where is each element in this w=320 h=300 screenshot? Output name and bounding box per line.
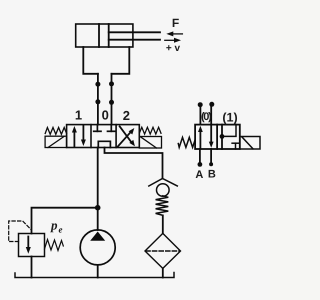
node dot top B	[209, 102, 214, 107]
valve V1 position 1 down arrow	[81, 126, 86, 147]
svg-text:): )	[208, 111, 212, 123]
node dot A1	[95, 82, 100, 87]
force arrow F (left)	[166, 31, 182, 36]
node dot B2	[109, 100, 114, 105]
junction dot P branch	[95, 205, 101, 211]
valve V2 top stub B	[210, 106, 212, 125]
valve V2 solenoid	[240, 137, 260, 150]
valve V1 left solenoid	[45, 136, 67, 147]
svg-text:1: 1	[75, 107, 82, 122]
piston rod	[109, 32, 160, 39]
valve V1 right spring	[139, 127, 161, 134]
node dot bottom A	[198, 162, 203, 167]
node dot B1	[109, 81, 114, 86]
velocity arrow +v (right)	[165, 38, 181, 43]
svg-text:A: A	[195, 169, 203, 181]
pump P1	[80, 230, 115, 265]
wire relief valve to tank	[31, 257, 33, 278]
valve V1 position 0 blocked port B	[108, 125, 116, 132]
valve V1 position 1 up arrow	[72, 126, 77, 147]
relief valve body	[19, 234, 45, 257]
label pe	[50, 218, 63, 235]
valve V2 position 1 junction dot	[220, 134, 225, 139]
piston	[99, 24, 109, 47]
wire cylinder port B	[111, 74, 113, 125]
valve V2 position 1 through line	[221, 125, 223, 149]
svg-text:0: 0	[102, 108, 109, 123]
valve V2 spring	[178, 137, 195, 147]
label (0)	[201, 111, 212, 123]
svg-text:F: F	[172, 16, 179, 30]
svg-text:+ v: + v	[166, 43, 181, 54]
wire cylinder port A	[97, 74, 99, 125]
svg-text:(1): (1)	[222, 110, 237, 124]
valve V2 position 1 elbow	[222, 125, 236, 137]
valve V1 body	[67, 125, 140, 148]
filter F1 diamond	[145, 233, 181, 268]
valve V2 position 0 up arrow line	[198, 126, 203, 149]
wire P line valve to pump	[97, 148, 99, 231]
svg-text:B: B	[208, 169, 216, 181]
node dot bottom B	[209, 162, 213, 166]
valve V2 bottom stub B	[210, 149, 212, 163]
relief valve arrow	[26, 237, 31, 254]
valve V2 top stub A	[199, 106, 201, 124]
cylinder mounting bracket	[83, 47, 129, 74]
node dot A2	[95, 99, 100, 104]
valve V1 position 0 P-T bypass	[98, 141, 110, 147]
node dot top A	[198, 102, 203, 107]
valve V2 position 0 down arrow line	[209, 125, 214, 148]
check valve ball	[157, 184, 170, 197]
valve V1 right solenoid	[139, 137, 161, 149]
valve V1 position 2 cross arrow b	[120, 126, 135, 146]
check valve spring	[156, 196, 169, 216]
valve V2 body	[195, 125, 240, 149]
valve V1 left spring	[45, 128, 66, 135]
tank line	[15, 273, 174, 278]
filter element dashed	[146, 250, 180, 252]
wire T line valve to check valve	[105, 148, 163, 179]
check valve seat	[149, 179, 178, 187]
valve V1 position 0 blocked port A	[94, 125, 101, 132]
valve V1 position 2 cross arrow a	[118, 128, 135, 147]
valve V2 bottom stub A	[199, 149, 201, 163]
wire filter to tank	[162, 268, 164, 277]
wire branch to relief valve	[32, 208, 98, 234]
relief valve pilot dashed line	[9, 221, 31, 242]
svg-text:p: p	[50, 218, 58, 233]
svg-text:2: 2	[123, 108, 130, 123]
cylinder barrel	[76, 24, 133, 47]
pump flow triangle	[90, 232, 105, 241]
wire pump to tank	[97, 265, 99, 278]
svg-text:e: e	[59, 225, 63, 235]
wire check valve to filter	[162, 216, 164, 234]
valve V2 position 1 blocked port	[232, 143, 238, 149]
relief valve spring	[45, 240, 64, 251]
